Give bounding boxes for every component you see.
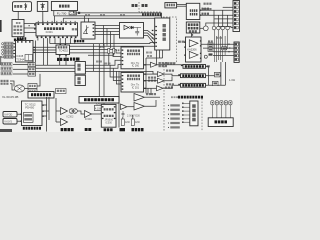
IC408 top pin squares	[17, 41, 31, 42]
KA2206 left pin 2	[184, 47, 186, 48]
wire: IC301 drop 2	[43, 38, 45, 65]
block: bus isolator B (vertical)	[75, 75, 85, 85]
label: servo section	[142, 4, 148, 7]
MCU left pin 1	[102, 106, 104, 107]
IC402 bottom pin 2	[65, 55, 67, 56]
op-amp IC202: surround volume control	[121, 47, 144, 69]
svg-text:IC500: IC500	[105, 121, 112, 124]
isolator B vertical text	[77, 77, 80, 84]
connector jack 3	[2, 49, 4, 51]
wire: headphone feed up 2	[150, 89, 152, 96]
block: tone network 2	[208, 48, 213, 51]
block: LCD display (vertical)	[190, 101, 198, 126]
laser head text row 1	[16, 22, 21, 24]
connector: VI-SYS (rounded)	[3, 119, 17, 125]
stray label d	[147, 55, 152, 57]
wire: long bus y12.9	[73, 12, 161, 14]
wire inside PLL box	[134, 27, 141, 29]
pin: IC201 right out 1	[144, 74, 146, 75]
aux box text	[57, 90, 65, 92]
TC9312 right pin 3	[42, 116, 44, 117]
wire: buffer box stub up a	[84, 16, 86, 22]
pin above KA2206	[192, 34, 194, 35]
small network text	[223, 48, 226, 50]
power amp channel B	[189, 51, 198, 58]
IC201 left pin 4	[122, 86, 124, 87]
wire: audio bus 2 left	[35, 67, 75, 69]
connector jack 1	[2, 43, 4, 45]
wire: headphone A out	[145, 96, 161, 98]
wire: tracking out	[92, 113, 102, 115]
pin between laser and IC301	[29, 25, 30, 26]
IC201 text row 2	[127, 78, 140, 80]
wire: buffer3 out	[164, 77, 172, 81]
IC408 right pin 2	[33, 49, 35, 50]
speaker surround text	[182, 75, 204, 78]
block: EFM comparator / PLL (diode box)	[120, 23, 144, 39]
block: standby / indicator circuit	[186, 22, 200, 33]
label MIC1	[1, 80, 9, 82]
wire: loader stub left	[53, 11, 55, 16]
crystal X2501 (4.19M)	[95, 105, 103, 110]
load R2 text	[214, 82, 218, 84]
label jack row 1	[2, 63, 12, 65]
speaker front text	[185, 65, 204, 68]
label box C-10x	[69, 12, 77, 15]
block: small network box right	[222, 47, 227, 50]
wire: IC301 drop 5	[54, 38, 56, 44]
IC301 text row 1	[44, 27, 64, 30]
wire: connector 3 to decoder	[13, 49, 16, 51]
wire: buffer1 to speaker front	[157, 64, 183, 66]
IC202 left pin 1	[122, 50, 124, 51]
connector label outline 5	[4, 55, 13, 58]
block: inner sub box of TC9312	[23, 113, 33, 123]
label connector 4	[5, 53, 13, 55]
op-amp buffer 4 (sub out)	[157, 86, 164, 91]
label IC204	[148, 77, 156, 79]
stray label k	[171, 96, 178, 98]
pin at speaker center	[178, 84, 180, 85]
svg-text:VL 60.05.3B: VL 60.05.3B	[2, 95, 18, 99]
IC301 left pin A	[34, 24, 36, 25]
pin at speaker front	[181, 65, 183, 66]
svg-text:IC 201: IC 201	[132, 87, 140, 90]
legend notes list	[168, 104, 180, 128]
pin: IC202 right out	[144, 64, 146, 65]
wire: laser to IC301 c	[24, 32, 36, 34]
wire: VI-SYS to TC9312	[17, 120, 22, 122]
block: input mute switch 1	[28, 63, 36, 67]
stray label h	[85, 14, 90, 16]
op-amp buffer 1 (front out)	[151, 62, 158, 67]
wire: buffer to PLL vertical d	[95, 34, 114, 36]
wire: KA out to terminals 3	[213, 51, 234, 53]
jack label outline row 2	[1, 67, 12, 70]
wire: mute 1 to bus	[35, 64, 37, 66]
svg-text:IC304: IC304	[85, 117, 92, 121]
wire: IC402 drop 1	[59, 56, 61, 65]
wire: short y55.3	[88, 54, 114, 56]
block: AC power input	[165, 3, 177, 8]
op-amp headphone A	[134, 94, 145, 102]
sensor symbol base	[24, 7, 26, 9]
svg-text:VI-SYS: VI-SYS	[4, 121, 12, 124]
op-amp small pre	[121, 104, 128, 110]
svg-text:IC 260: IC 260	[132, 65, 140, 68]
op-amp buffer 3 (surround B)	[158, 78, 165, 83]
wire label low	[166, 83, 174, 85]
block: loader / tray mechanism	[51, 2, 77, 11]
label connector 1	[5, 43, 13, 45]
IC201 left pin 1	[122, 75, 124, 76]
connector label outline 3	[4, 49, 13, 52]
IC202 text row 2	[127, 53, 140, 55]
key matrix text	[215, 120, 228, 123]
wire: servo bus y49.6	[70, 50, 122, 53]
wire: PLL to servo driver 3 (diagonal)	[144, 36, 155, 45]
wire: laser to IC301 a	[24, 23, 36, 25]
driver transistor Q5	[226, 26, 230, 30]
dashed divider decode/servo	[139, 2, 177, 131]
wire: coil to tracking	[77, 111, 84, 114]
block: speaker terminal front (flat)	[183, 65, 206, 69]
arrowhead connector 2	[14, 46, 15, 47]
block: dark mark	[209, 53, 213, 55]
left margin mark 1	[0, 20, 2, 32]
stray label e	[216, 37, 222, 39]
flat box text	[84, 98, 114, 101]
laser head text row 4	[14, 32, 23, 34]
IC201 left pin 5	[122, 89, 124, 90]
power supply text row 1	[190, 9, 198, 12]
wire: into PLL box 3	[111, 32, 120, 49]
resistor R330	[121, 119, 124, 126]
wire: TC9312 right vertical 1	[46, 97, 48, 132]
caption under IC402 c	[70, 58, 75, 61]
IC301 bottom pin squares	[37, 36, 77, 38]
wire: loader stub right	[72, 11, 74, 13]
tone network text 2	[209, 49, 212, 51]
wire: IC301 drop 8	[70, 38, 72, 44]
speaker center text	[182, 84, 204, 87]
standby text row 3	[189, 30, 197, 32]
MCU left pin 2	[102, 112, 104, 113]
wire: IC201 out c	[144, 87, 157, 89]
wire: speaker collect c	[224, 62, 226, 85]
IC201 text row 1	[127, 75, 140, 77]
wire: join drop	[145, 58, 147, 94]
KA2206 right pin 2	[200, 45, 202, 46]
MCU right pin 3	[114, 118, 116, 119]
block: speaker terminal center (flat)	[181, 83, 206, 87]
block: input mute switch 2	[28, 67, 36, 71]
junction on long bus	[78, 12, 80, 14]
isolator A vertical text	[77, 64, 80, 71]
IC202 left pin 3	[122, 57, 124, 58]
wire: AC to PSU a	[177, 4, 187, 6]
wire: IC202 to buffer 1	[144, 64, 151, 66]
right vertical wire bundle	[214, 30, 227, 62]
op-amp headphone B	[134, 103, 145, 111]
wire: IC408 to IC402 a	[33, 46, 56, 48]
wire: motor down to IC301 top	[42, 11, 44, 22]
wire: IC201 out b	[144, 80, 158, 82]
IC301 small label right	[72, 28, 78, 30]
label at buffer 1 bottom	[159, 65, 168, 67]
sensor symbol stem	[25, 3, 27, 10]
pin: PSU out 1	[200, 10, 202, 11]
pin at speaker surround	[178, 74, 180, 75]
wire: connector 1 to decoder	[13, 43, 16, 45]
op-amp/IC: RF amp & servo signal processor IC301	[36, 23, 78, 36]
connector jack 4	[2, 53, 4, 55]
op-amp servo driver B (IC303)	[61, 119, 68, 126]
tone network text 1	[209, 44, 212, 45]
label connector 5	[5, 56, 13, 58]
wire: decoder parallel line	[35, 41, 37, 63]
caption under MCU	[104, 128, 113, 131]
connector label outline 4	[4, 52, 13, 55]
TC9312 right pin 2	[42, 111, 44, 112]
wire: audio bus 1 left	[35, 64, 75, 66]
buffer box right pin 1	[93, 24, 95, 25]
wire: KA out to terminals 2	[203, 47, 234, 49]
sub-block divider	[28, 55, 30, 61]
wire: KA out to terminals 4	[213, 55, 234, 57]
transistor curve symbol inside buffer box	[83, 25, 89, 33]
block: switching power supply	[186, 3, 200, 19]
wire: connector 4 to decoder	[13, 53, 16, 55]
wire: servo link into driver	[150, 43, 155, 44]
block: mic amp 1	[28, 84, 37, 89]
wire: servo bus y52.9	[70, 53, 122, 57]
IC402 top pin 1	[60, 44, 62, 45]
left margin mark 2	[0, 56, 1, 65]
wire: TC9312 pin to vertical 1	[42, 104, 46, 106]
wire: mid vertical a	[93, 44, 95, 72]
label right of headphone A	[146, 93, 156, 95]
wire above R331	[132, 115, 134, 119]
power amp channel A	[189, 40, 198, 47]
wire above Q5	[227, 15, 229, 26]
tone network text 1b	[209, 46, 212, 47]
wire: into driver B	[56, 121, 61, 123]
block: rear terminal strip (mid)	[234, 42, 239, 62]
wire below R305	[108, 53, 110, 65]
transformer coil symbol	[69, 109, 74, 114]
caption under IC402 a	[57, 58, 62, 61]
wire: standby to LED	[200, 27, 204, 29]
IC202 left pin 4	[122, 60, 124, 61]
IC202 left pin 2	[122, 53, 124, 54]
connector label outline 2	[4, 45, 13, 48]
label: decode section	[132, 4, 138, 7]
arrowhead connector 5	[14, 56, 15, 57]
resistor R331	[131, 119, 134, 126]
diode inside PLL box	[131, 26, 134, 29]
wire: PLL to servo driver 1 (diagonal)	[144, 31, 155, 37]
wire: audio bus 3 right	[85, 71, 157, 74]
stray label c	[146, 52, 152, 54]
wire: speaker collect a	[208, 66, 210, 85]
terminal strip rows (mid)	[235, 43, 238, 61]
sensor symbol blob	[25, 5, 27, 7]
label: input select	[17, 37, 26, 40]
wire: VI-FOD to TC9312	[17, 113, 22, 115]
wire: sp surround to collect	[206, 75, 221, 77]
wire: mid vertical b	[98, 44, 100, 97]
wire: amp1 out to bus	[37, 74, 40, 86]
MCU text row 1	[104, 108, 114, 110]
MCU text row 2	[104, 115, 114, 117]
block: servo DSP TC9312	[22, 101, 43, 126]
KA2206 right pin 3	[200, 53, 202, 54]
wire: +5V rail	[200, 14, 233, 16]
mute box 2 text	[29, 68, 35, 70]
op-amp inside PLL box	[124, 25, 129, 29]
arrowhead connector 3	[14, 50, 15, 51]
servo driver vertical text	[163, 24, 166, 41]
pin: IC201 right out 3	[144, 88, 146, 89]
wire: driver feeds	[55, 98, 57, 122]
power supply text row 2	[190, 13, 198, 16]
wire: buffer2 out	[164, 74, 181, 76]
stray label f	[204, 3, 212, 5]
wire label 4.5ohm	[167, 62, 175, 64]
wire: AC to PSU b	[177, 5, 187, 7]
wire: +12V rail	[200, 9, 233, 11]
svg-text:KA2206: KA2206	[187, 47, 197, 51]
caption under driver A	[61, 128, 74, 131]
arrowhead a	[20, 113, 21, 115]
text in loader block	[59, 5, 70, 8]
wire: M2 feed 2	[113, 68, 121, 80]
op-amp servo driver A (IC302)	[61, 108, 68, 115]
servo driver left pin 3	[155, 34, 157, 35]
wire: M2 feed 3	[116, 71, 121, 84]
transistor at bottom left of bundle	[204, 55, 207, 58]
jack label outline row 3	[1, 72, 12, 75]
KA2206 left pin 1	[184, 42, 186, 43]
wire: drop y18.2 to IC301	[62, 18, 64, 23]
block: spindle motor	[37, 2, 48, 12]
motor symbol bar	[40, 4, 44, 6]
caption under laser head	[14, 39, 23, 42]
wire below R306	[113, 53, 115, 55]
wire: buffer box stub up b	[88, 18, 90, 22]
connector jack 5	[2, 56, 4, 58]
label connector 3	[5, 49, 13, 51]
resistor R306	[113, 48, 115, 53]
junction dots on terminal feeds	[228, 44, 230, 53]
label right of speaker front	[207, 65, 210, 67]
wire: IC301 drop 7	[64, 38, 66, 44]
wire: A6 feed 2	[214, 18, 233, 20]
IC408 right pin 1	[33, 47, 35, 48]
wire: connector 2 to decoder	[13, 46, 16, 48]
block: key matrix circuit	[208, 118, 233, 127]
caption under TC9312	[23, 127, 41, 130]
op-amp buffer 2 (surround)	[158, 72, 165, 77]
svg-text:E30: E30	[125, 121, 130, 124]
LED indicator	[203, 26, 208, 31]
mute box 1 text	[29, 64, 35, 66]
servo driver left pin 2	[155, 30, 157, 31]
driver transistor Q3	[217, 26, 221, 30]
block: small aux box	[56, 89, 67, 94]
stray label b	[105, 63, 111, 65]
standby text row 2	[188, 27, 199, 30]
wire: TC9312 pin to vertical 3	[42, 115, 46, 117]
block: speaker terminal surround (flat)	[181, 74, 206, 78]
wire: LED up and right	[206, 23, 233, 26]
wire: bus drop to servo driver top	[161, 13, 163, 18]
servo driver left pin 1	[155, 26, 157, 27]
IC201 left pin 3	[122, 82, 124, 83]
laser head text row 3	[14, 29, 23, 31]
wire: into driver A	[56, 110, 61, 112]
block: servo error amp IC402	[56, 45, 70, 55]
arrowhead b	[20, 120, 21, 122]
stray label i	[100, 14, 105, 16]
terminal strip rows (top)	[234, 2, 238, 29]
wire above Q4	[222, 10, 224, 26]
LCD left pin ticks	[182, 103, 190, 124]
wire: servo driver drop 2	[159, 50, 161, 58]
buffer box right pin 3	[93, 31, 95, 32]
wire: IC301 drop 6	[59, 38, 61, 44]
stray label g	[204, 8, 212, 10]
IC202 left pin 5	[122, 64, 124, 65]
capacitor marks below pre-amp	[122, 111, 125, 117]
caption under IC402 d	[76, 58, 80, 61]
wire: servo driver drop 1	[156, 50, 158, 65]
wire: sp center to collect	[206, 84, 226, 86]
wire: IC301 drop 9	[74, 38, 76, 44]
wire: KA out to terminals 1	[201, 43, 234, 45]
svg-text:2.0067 E30: 2.0067 E30	[127, 114, 140, 117]
flat left box text	[31, 93, 51, 96]
op-amp tracking driver (IC304)	[85, 111, 92, 118]
label: servo test point (dark)	[74, 40, 84, 42]
wire: A6 feed 3	[218, 27, 233, 28]
wire: top bus y18.2	[63, 17, 154, 19]
IC408 right pin 3	[33, 52, 35, 53]
wire: mixer to amp	[25, 88, 29, 90]
wire: jack to mute 3	[13, 73, 28, 75]
pin at PLL right edge 1	[152, 30, 154, 31]
motor symbol blob	[42, 5, 44, 7]
KA2206 left pin 3	[184, 55, 186, 56]
IC301 top pin squares	[38, 23, 77, 25]
load R1 text	[216, 74, 220, 76]
svg-text:IC301: IC301	[46, 30, 54, 34]
wire above R330	[122, 117, 124, 119]
key switches row	[211, 101, 232, 118]
wire: driver drop join	[146, 57, 163, 59]
servo driver left pin 5	[155, 42, 157, 43]
wire: top bus y15.9	[54, 15, 161, 17]
wire: into PLL box 2	[107, 29, 120, 46]
wire: TC9312 right vertical 2	[48, 97, 50, 120]
wire above Q2	[213, 10, 215, 26]
wire: IC408 to IC402 c	[33, 52, 56, 54]
motor symbol arrow	[41, 7, 44, 9]
wire: jack to mute 2	[13, 68, 28, 70]
wire: audio bus 1 right	[85, 60, 121, 65]
laser head text row 2	[14, 25, 23, 27]
